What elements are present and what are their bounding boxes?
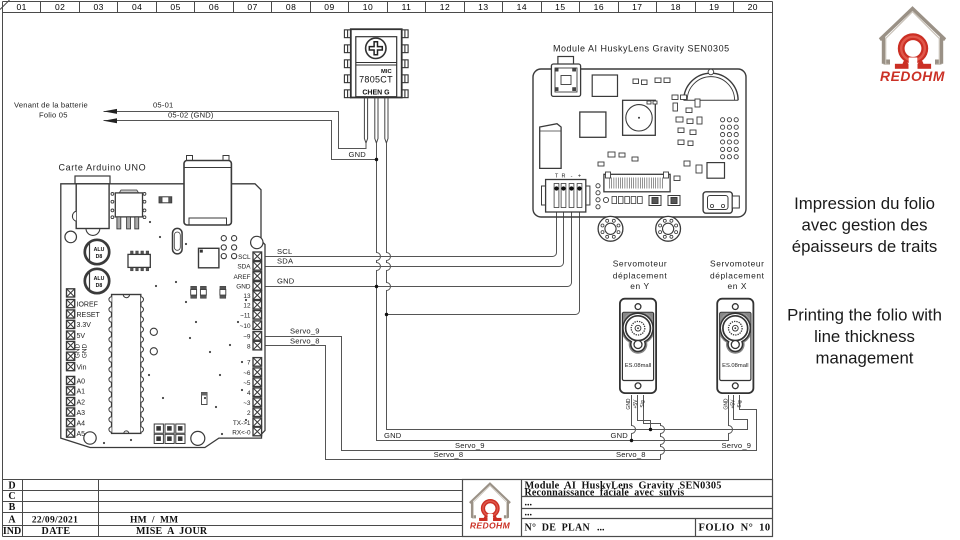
micro sd slot [540, 124, 561, 169]
svg-text:~9: ~9 [243, 334, 251, 341]
svg-text:Servo_9: Servo_9 [455, 441, 485, 450]
svg-text:management: management [816, 349, 914, 368]
svg-text:01: 01 [16, 2, 26, 12]
wire servo_8 [262, 346, 661, 460]
servomoteur X label [710, 258, 765, 291]
svg-text:18: 18 [671, 2, 681, 12]
mounting holes [65, 231, 263, 445]
svg-text:ALU: ALU [94, 247, 105, 253]
svg-text:en Y: en Y [630, 281, 649, 291]
micro usb [703, 192, 739, 213]
wire labels [14, 101, 751, 460]
ruler scale 01-20 [16, 1, 758, 13]
redohm logo top right [880, 9, 945, 85]
scattered vias [103, 221, 247, 444]
caption french [792, 194, 938, 256]
smd groups [191, 286, 226, 298]
svg-text:Servomoteur: Servomoteur [613, 258, 668, 268]
column pads [596, 184, 600, 209]
atmega16u2 [199, 248, 219, 267]
svg-text:11: 11 [402, 2, 412, 12]
lens dome [684, 73, 738, 100]
svg-text:GND: GND [626, 398, 632, 410]
svg-text:GND: GND [384, 431, 402, 440]
pin labels t r - + [555, 174, 581, 180]
svg-text:15: 15 [555, 2, 565, 12]
servo wire labels rotated [626, 398, 743, 410]
svg-text:T: T [555, 174, 559, 180]
svg-text:N° DE PLAN: N° DE PLAN [525, 522, 591, 533]
svg-text:MISE A JOUR: MISE A JOUR [136, 526, 208, 537]
test pads [221, 236, 237, 259]
svg-text:D: D [8, 481, 15, 492]
svg-text:A4: A4 [77, 421, 86, 428]
svg-text:Impression du folio: Impression du folio [794, 194, 935, 213]
svg-text:D8: D8 [96, 283, 103, 289]
svg-text:en X: en X [727, 281, 747, 291]
electrolytic capacitor c1 [85, 240, 109, 264]
svg-text:A0: A0 [77, 378, 86, 385]
svg-text:~6: ~6 [243, 370, 251, 377]
svg-text:SCL: SCL [238, 254, 251, 261]
svg-text:A2: A2 [77, 399, 86, 406]
svg-text:IND: IND [3, 526, 21, 537]
analog header pins [67, 376, 75, 384]
svg-text:04: 04 [132, 2, 142, 12]
wire 5v to husky [387, 190, 580, 315]
svg-text:déplacement: déplacement [710, 271, 765, 281]
wire servo x gnd [729, 395, 733, 441]
right header labels [232, 254, 251, 436]
svg-text:TX->1: TX->1 [233, 420, 251, 427]
led circles [150, 328, 157, 335]
svg-text:CHEN G: CHEN G [362, 90, 390, 97]
svg-text:4: 4 [247, 390, 251, 397]
wire gnd vertical from 7805 [377, 143, 729, 441]
svg-text:5V: 5V [77, 333, 86, 340]
svg-text:12: 12 [440, 2, 450, 12]
svg-text:3.3V: 3.3V [77, 322, 92, 329]
wire scl [262, 190, 557, 257]
icsp header [154, 424, 185, 444]
svg-text:SDA: SDA [277, 257, 294, 266]
svg-text:ES.08mall: ES.08mall [722, 363, 748, 369]
svg-text:ES.08mall: ES.08mall [625, 363, 651, 369]
7805 legs [364, 98, 367, 144]
servomoteur Y label [613, 258, 668, 291]
svg-text:Servo_9: Servo_9 [290, 327, 320, 336]
svg-text:~3: ~3 [243, 400, 251, 407]
svg-text:12: 12 [243, 303, 251, 310]
svg-text:A: A [8, 515, 16, 526]
svg-text:13: 13 [243, 293, 251, 300]
svg-text:03: 03 [93, 2, 103, 12]
wire servo y 5v [638, 395, 651, 430]
svg-text:Servo_8: Servo_8 [616, 450, 646, 459]
svg-text:~5: ~5 [243, 380, 251, 387]
ic bottom right [707, 163, 725, 179]
mount lobe left [598, 216, 623, 241]
svg-text:Sig: Sig [640, 400, 646, 407]
wire servo y signal [644, 395, 665, 460]
svg-text:GND: GND [277, 277, 295, 286]
svg-text:GND: GND [349, 150, 367, 159]
arduino board outline [61, 184, 265, 448]
svg-text:Venant de la batterie: Venant de la batterie [14, 101, 88, 110]
svg-text:09: 09 [324, 2, 334, 12]
svg-text:RX<-0: RX<-0 [232, 429, 251, 436]
atmega328 dip [109, 295, 144, 434]
svg-text:Sig: Sig [737, 400, 743, 407]
svg-text:14: 14 [517, 2, 527, 12]
wire servo y gnd [632, 395, 636, 441]
battery arrows [104, 109, 118, 114]
junction dots [375, 158, 652, 442]
svg-text:Folio 05: Folio 05 [39, 111, 68, 120]
svg-text:A5: A5 [77, 431, 86, 438]
svg-text:Vin: Vin [77, 364, 87, 371]
svg-text:-: - [571, 174, 573, 180]
svg-text:D8: D8 [96, 254, 103, 260]
svg-text:7805CT: 7805CT [359, 75, 393, 85]
svg-text:SDA: SDA [237, 264, 251, 271]
svg-text:Servo_8: Servo_8 [434, 450, 464, 459]
svg-text:IOREF: IOREF [77, 301, 98, 308]
svg-text:08: 08 [286, 2, 296, 12]
svg-text:20: 20 [748, 2, 758, 12]
svg-text:DATE: DATE [41, 526, 70, 537]
right header pins [253, 252, 262, 261]
svg-text:16: 16 [594, 2, 604, 12]
svg-text:7: 7 [247, 360, 251, 367]
svg-text:C: C [8, 491, 15, 502]
svg-text:2: 2 [247, 410, 251, 417]
wire sda [262, 190, 564, 267]
revision table [3, 480, 463, 538]
svg-text:22/09/2021: 22/09/2021 [32, 515, 78, 525]
svg-text:+5V: +5V [633, 399, 639, 409]
svg-text:line thickness: line thickness [814, 327, 915, 346]
via dots near regulator [111, 193, 146, 219]
svg-text:épaisseurs de traits: épaisseurs de traits [792, 237, 938, 256]
regulator smd [115, 190, 142, 229]
svg-text:~11: ~11 [240, 313, 251, 320]
svg-text:Reconnaissance faciale avec su: Reconnaissance faciale avec suivis [525, 488, 685, 499]
caption english [787, 306, 942, 368]
svg-text:8: 8 [247, 343, 251, 350]
voltage regulator 7805 [344, 29, 408, 97]
title block [463, 480, 773, 537]
wire gnd arduino to husky [262, 190, 572, 287]
svg-text:Carte Arduino UNO: Carte Arduino UNO [59, 163, 147, 173]
ic rect top [592, 75, 617, 96]
wire servo_9 [262, 337, 757, 451]
svg-text:~10: ~10 [240, 323, 251, 330]
svg-text:RESET: RESET [77, 312, 101, 319]
wire 5v vertical from 7805 [387, 143, 748, 430]
test pad grid [721, 118, 739, 159]
svg-text:05-01: 05-01 [153, 101, 173, 110]
small cap c5 [202, 393, 208, 405]
svg-text:HM / MM: HM / MM [130, 515, 178, 525]
svg-text:+: + [578, 174, 581, 180]
camera sensor [623, 100, 656, 135]
svg-text:avec gestion des: avec gestion des [802, 216, 928, 235]
pads row below fpc [612, 197, 642, 204]
svg-text:ALU: ALU [94, 276, 105, 282]
small parts scatter [598, 78, 702, 181]
soic8 op amp [128, 251, 150, 271]
wire battery 05-01 [104, 112, 367, 149]
huskylens board outline [533, 69, 746, 217]
svg-text:19: 19 [709, 2, 719, 12]
smd resistor [159, 197, 172, 203]
svg-text:10: 10 [363, 2, 373, 12]
svg-text:+5V: +5V [730, 399, 736, 409]
svg-text:AREF: AREF [233, 274, 250, 281]
4 pin connector [542, 180, 590, 213]
svg-text:02: 02 [55, 2, 65, 12]
svg-text:Servo_9: Servo_9 [722, 441, 752, 450]
svg-text:...: ... [525, 508, 533, 519]
svg-text:GND: GND [724, 398, 730, 410]
svg-text:B: B [9, 502, 16, 513]
power jack [72, 176, 110, 235]
svg-text:17: 17 [632, 2, 642, 12]
svg-text:FOLIO N° 10: FOLIO N° 10 [699, 522, 771, 533]
svg-text:A1: A1 [77, 389, 86, 396]
servo X body [717, 299, 753, 393]
svg-text:06: 06 [209, 2, 219, 12]
svg-text:Printing the folio with: Printing the folio with [787, 306, 942, 325]
push button top left [551, 57, 580, 97]
redohm logo title block [470, 484, 511, 531]
svg-text:GND: GND [236, 284, 251, 291]
servo Y body [620, 299, 656, 393]
svg-text:Servo_8: Servo_8 [290, 337, 320, 346]
svg-text:05: 05 [170, 2, 180, 12]
ic square mid left [580, 112, 606, 137]
usb connector [184, 156, 231, 226]
svg-text:05-02 (GND): 05-02 (GND) [168, 110, 214, 119]
svg-text:...: ... [597, 522, 605, 533]
crystal [173, 228, 183, 254]
svg-text:07: 07 [247, 2, 257, 12]
svg-text:GND: GND [82, 344, 89, 359]
fpc connector [604, 172, 670, 192]
svg-text:GND: GND [611, 431, 629, 440]
svg-text:13: 13 [478, 2, 488, 12]
svg-text:Module AI HuskyLens Gravity SE: Module AI HuskyLens Gravity SEN0305 [553, 44, 730, 54]
svg-text:R: R [562, 174, 566, 180]
power header pins [67, 289, 75, 297]
svg-text:SCL: SCL [277, 247, 292, 256]
mount lobe right [656, 216, 681, 241]
svg-text:A3: A3 [77, 410, 86, 417]
wire battery 05-02 gnd [104, 121, 377, 160]
svg-text:Servomoteur: Servomoteur [710, 258, 765, 268]
svg-text:GND: GND [75, 344, 82, 359]
svg-text:déplacement: déplacement [613, 271, 668, 281]
